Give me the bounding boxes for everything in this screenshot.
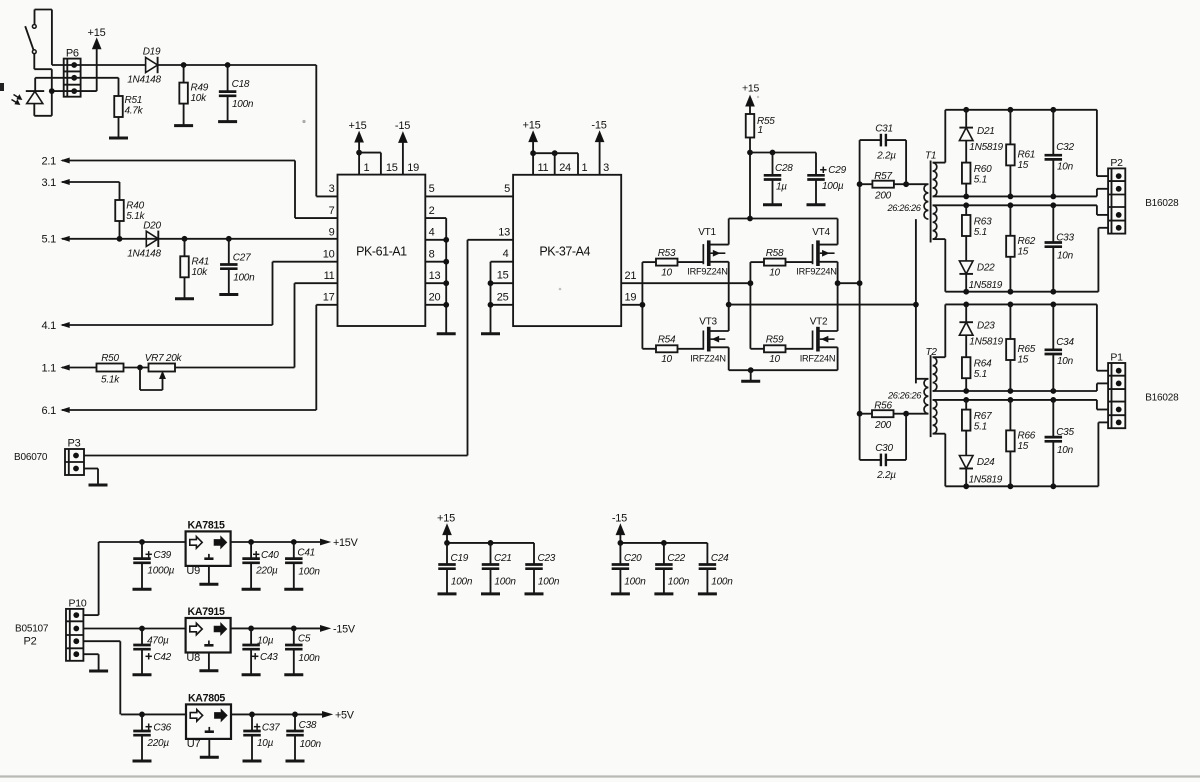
svg-text:15: 15 <box>497 270 509 282</box>
svg-text:2.1: 2.1 <box>41 155 56 167</box>
svg-text:U8: U8 <box>186 652 200 664</box>
svg-text:1: 1 <box>364 162 370 174</box>
svg-text:KA7815: KA7815 <box>188 519 225 531</box>
svg-text:U7: U7 <box>187 738 201 750</box>
svg-text:220µ: 220µ <box>146 738 169 749</box>
svg-text:13: 13 <box>429 270 441 282</box>
svg-text:5: 5 <box>504 183 510 195</box>
svg-text:26:26:26: 26:26:26 <box>887 391 922 401</box>
svg-text:100n: 100n <box>668 577 690 588</box>
svg-text:R51: R51 <box>125 95 143 106</box>
svg-text:C36: C36 <box>153 722 171 733</box>
svg-text:C38: C38 <box>299 720 317 731</box>
svg-text:C5: C5 <box>298 634 311 645</box>
svg-text:B16028: B16028 <box>1145 393 1179 404</box>
svg-text:R40: R40 <box>126 201 144 212</box>
svg-text:100n: 100n <box>494 577 516 588</box>
svg-text:4: 4 <box>503 248 509 260</box>
svg-text:100n: 100n <box>300 739 322 750</box>
svg-text:C18: C18 <box>232 79 250 90</box>
svg-text:200: 200 <box>874 191 892 202</box>
svg-text:100n: 100n <box>233 273 255 284</box>
svg-text:20: 20 <box>429 292 441 304</box>
svg-text:VR7 20k: VR7 20k <box>145 353 183 364</box>
svg-text:100n: 100n <box>711 577 733 588</box>
svg-text:R61: R61 <box>1018 150 1036 161</box>
svg-text:1N5819: 1N5819 <box>969 475 1003 486</box>
svg-text:2.2µ: 2.2µ <box>876 470 896 481</box>
svg-text:100n: 100n <box>624 577 646 588</box>
svg-text:5.1: 5.1 <box>974 422 987 433</box>
svg-text:R58: R58 <box>766 248 784 259</box>
svg-text:D24: D24 <box>977 457 995 468</box>
svg-text:5.1: 5.1 <box>974 227 987 238</box>
svg-text:1.1: 1.1 <box>41 362 56 374</box>
svg-text:100n: 100n <box>298 567 320 578</box>
svg-text:10: 10 <box>661 268 672 279</box>
svg-text:+15: +15 <box>88 27 106 39</box>
svg-text:+15V: +15V <box>333 537 359 549</box>
svg-text:R59: R59 <box>766 335 784 346</box>
svg-text:11: 11 <box>538 162 549 174</box>
svg-text:R57: R57 <box>874 171 892 182</box>
svg-text:470µ: 470µ <box>147 636 169 647</box>
svg-text:R67: R67 <box>974 411 992 422</box>
svg-text:C30: C30 <box>875 443 893 454</box>
svg-text:2: 2 <box>429 205 435 217</box>
svg-text:KA7805: KA7805 <box>188 692 225 704</box>
svg-text:P1: P1 <box>1110 352 1123 364</box>
svg-text:C31: C31 <box>875 124 893 135</box>
svg-text:C39: C39 <box>153 550 171 561</box>
svg-text:10n: 10n <box>1057 251 1074 262</box>
svg-text:24: 24 <box>559 162 571 174</box>
svg-text:1N4148: 1N4148 <box>127 75 161 86</box>
svg-text:IRFZ24N: IRFZ24N <box>800 354 836 364</box>
svg-text:C24: C24 <box>711 553 729 564</box>
svg-text:VT3: VT3 <box>699 317 717 328</box>
svg-text:15: 15 <box>1018 441 1029 452</box>
svg-text:R63: R63 <box>974 217 992 228</box>
svg-text:C22: C22 <box>667 553 685 564</box>
svg-text:10: 10 <box>769 354 780 365</box>
svg-text:10n: 10n <box>1057 445 1074 456</box>
svg-text:17: 17 <box>323 292 335 304</box>
svg-text:R56: R56 <box>874 401 892 412</box>
svg-text:C34: C34 <box>1056 337 1074 348</box>
svg-text:C35: C35 <box>1056 427 1074 438</box>
svg-text:5.1: 5.1 <box>974 369 987 380</box>
svg-text:U9: U9 <box>186 565 200 577</box>
svg-text:4.7k: 4.7k <box>125 106 144 117</box>
svg-text:T2: T2 <box>926 347 938 358</box>
svg-text:19: 19 <box>625 292 637 304</box>
svg-text:D23: D23 <box>977 321 995 332</box>
svg-text:4: 4 <box>429 227 435 239</box>
svg-text:VT1: VT1 <box>698 227 716 238</box>
svg-text:R65: R65 <box>1018 344 1036 355</box>
svg-text:100n: 100n <box>298 653 320 664</box>
svg-text:C21: C21 <box>494 553 512 564</box>
svg-text:15: 15 <box>1018 355 1029 366</box>
svg-text:R60: R60 <box>974 164 992 175</box>
svg-text:7: 7 <box>329 205 335 217</box>
svg-text:C19: C19 <box>451 553 469 564</box>
svg-text:C23: C23 <box>538 553 556 564</box>
svg-text:1: 1 <box>758 125 763 136</box>
svg-text:VT2: VT2 <box>810 317 828 328</box>
svg-text:D20: D20 <box>143 221 161 232</box>
svg-text:R54: R54 <box>658 335 676 346</box>
svg-text:100n: 100n <box>538 577 560 588</box>
svg-text:B06070: B06070 <box>14 452 48 463</box>
svg-text:R64: R64 <box>974 359 992 370</box>
svg-text:10n: 10n <box>1057 162 1074 173</box>
svg-text:4.1: 4.1 <box>41 320 56 332</box>
svg-text:10µ: 10µ <box>257 738 274 749</box>
svg-text:21: 21 <box>625 270 637 282</box>
svg-text:P10: P10 <box>69 598 87 610</box>
svg-text:6.1: 6.1 <box>41 405 56 417</box>
svg-text:10µ: 10µ <box>257 636 274 647</box>
svg-text:11: 11 <box>324 270 335 282</box>
svg-text:C33: C33 <box>1056 233 1074 244</box>
svg-text:10k: 10k <box>191 93 208 104</box>
svg-text:D22: D22 <box>977 263 995 274</box>
svg-text:R53: R53 <box>658 248 676 259</box>
svg-text:PK-61-A1: PK-61-A1 <box>356 245 407 259</box>
svg-text:1N5819: 1N5819 <box>969 337 1003 348</box>
svg-text:100n: 100n <box>451 577 473 588</box>
svg-text:+15: +15 <box>742 83 759 95</box>
svg-text:D21: D21 <box>977 126 995 137</box>
svg-text:C40: C40 <box>261 550 279 561</box>
svg-text:P3: P3 <box>68 438 81 450</box>
svg-text:IRF9Z24N: IRF9Z24N <box>796 267 836 277</box>
svg-text:R41: R41 <box>192 257 210 268</box>
svg-text:19: 19 <box>407 162 419 174</box>
svg-text:P2: P2 <box>1110 157 1123 169</box>
svg-text:C27: C27 <box>233 253 251 264</box>
svg-text:IRFZ24N: IRFZ24N <box>690 354 726 364</box>
svg-text:100µ: 100µ <box>822 181 844 192</box>
svg-text:P2: P2 <box>24 636 37 648</box>
svg-text:C28: C28 <box>775 163 793 174</box>
svg-text:C29: C29 <box>828 165 846 176</box>
svg-text:T1: T1 <box>925 151 936 162</box>
svg-text:100n: 100n <box>232 99 254 110</box>
svg-text:3: 3 <box>329 183 335 195</box>
svg-text:3: 3 <box>603 162 609 174</box>
svg-text:C41: C41 <box>297 548 315 559</box>
svg-text:26:26:26: 26:26:26 <box>887 203 922 213</box>
svg-text:-15: -15 <box>612 513 627 525</box>
svg-text:1000µ: 1000µ <box>147 566 174 577</box>
svg-text:220µ: 220µ <box>255 566 278 577</box>
svg-text:15: 15 <box>386 162 398 174</box>
svg-text:KA7915: KA7915 <box>188 606 225 618</box>
svg-text:5.1: 5.1 <box>41 234 56 246</box>
svg-text:9: 9 <box>329 227 335 239</box>
svg-text:15: 15 <box>1018 247 1029 258</box>
svg-text:3.1: 3.1 <box>41 177 56 189</box>
svg-text:25: 25 <box>497 291 509 303</box>
svg-text:10n: 10n <box>1057 356 1074 367</box>
svg-text:IRF9Z24N: IRF9Z24N <box>687 267 727 277</box>
svg-text:+5V: +5V <box>335 709 355 721</box>
svg-text:5.1k: 5.1k <box>101 375 120 386</box>
svg-text:+15: +15 <box>523 120 541 132</box>
svg-text:C43: C43 <box>260 652 278 663</box>
svg-text:B05107: B05107 <box>15 624 49 635</box>
svg-text:+15: +15 <box>437 513 455 525</box>
svg-text:5: 5 <box>429 183 435 195</box>
svg-text:R62: R62 <box>1018 236 1036 247</box>
svg-text:+15: +15 <box>349 120 367 132</box>
svg-text:1: 1 <box>582 162 588 174</box>
svg-text:1N5819: 1N5819 <box>969 142 1003 153</box>
svg-text:10: 10 <box>323 248 335 260</box>
svg-text:10: 10 <box>661 354 672 365</box>
svg-text:VT4: VT4 <box>812 227 830 238</box>
svg-text:PK-37-A4: PK-37-A4 <box>539 245 590 259</box>
svg-text:1N4148: 1N4148 <box>127 249 161 260</box>
svg-text:C37: C37 <box>262 722 280 733</box>
svg-text:15: 15 <box>1018 160 1029 171</box>
svg-text:5.1: 5.1 <box>974 175 987 186</box>
svg-text:C32: C32 <box>1056 142 1074 153</box>
svg-text:200: 200 <box>874 420 892 431</box>
svg-text:1N5819: 1N5819 <box>969 280 1003 291</box>
svg-text:1µ: 1µ <box>776 182 787 193</box>
svg-text:C42: C42 <box>153 652 171 663</box>
svg-text:2.2µ: 2.2µ <box>876 151 896 162</box>
svg-text:P6: P6 <box>66 48 79 60</box>
svg-text:B16028: B16028 <box>1145 198 1179 209</box>
svg-text:R66: R66 <box>1018 431 1036 442</box>
svg-text:13: 13 <box>498 226 510 238</box>
svg-text:D19: D19 <box>143 47 161 58</box>
svg-text:C20: C20 <box>624 553 642 564</box>
svg-text:10: 10 <box>769 268 780 279</box>
svg-text:-15: -15 <box>591 120 606 132</box>
svg-text:-15V: -15V <box>333 623 356 635</box>
svg-text:8: 8 <box>429 248 435 260</box>
svg-text:-15: -15 <box>395 120 410 132</box>
svg-text:10k: 10k <box>192 267 209 278</box>
svg-text:R50: R50 <box>101 353 119 364</box>
svg-text:R49: R49 <box>191 83 209 94</box>
